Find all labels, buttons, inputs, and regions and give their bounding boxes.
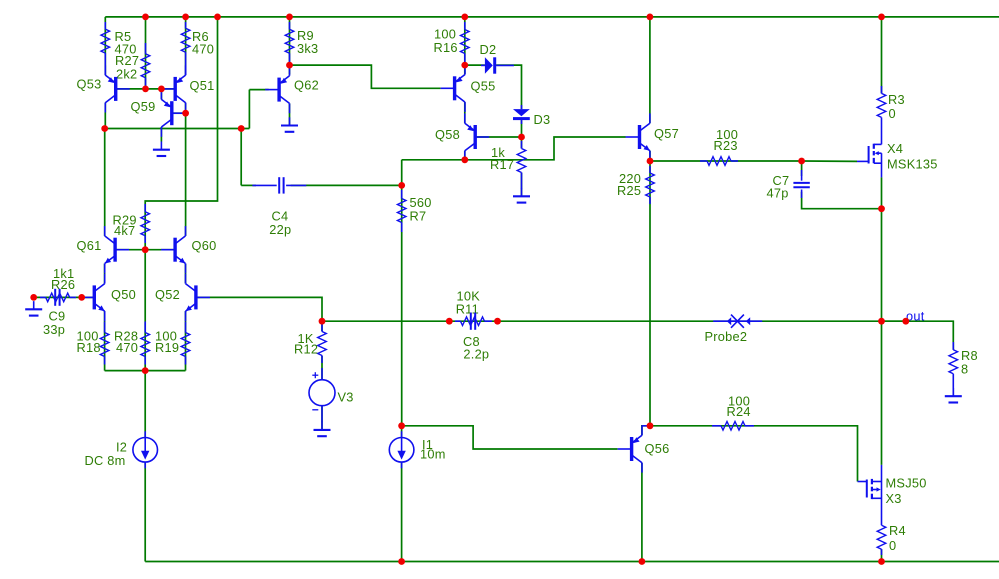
junction [142,14,149,21]
wire [322,320,449,322]
junction [182,110,189,117]
svg-text:Q62: Q62 [294,78,319,93]
svg-text:Probe2: Probe2 [705,329,748,344]
capacitor C7 47p [767,170,810,201]
diode D2 [480,42,514,74]
svg-text:R23: R23 [714,138,738,153]
svg-text:33p: 33p [43,322,65,337]
junction [238,125,245,132]
svg-text:0: 0 [889,106,896,121]
svg-text:0: 0 [889,538,896,553]
resistor R11 10K [455,289,492,326]
diode D3 [513,105,550,127]
ground [945,388,962,403]
junction [286,14,293,21]
wire [321,356,323,380]
junction [878,205,885,212]
junction [158,86,165,93]
current probe Probe2 [705,315,763,344]
junction [798,158,805,165]
wire [496,65,521,109]
svg-text:R3: R3 [888,92,905,107]
wire [291,184,402,186]
transistor Q50 [80,274,136,321]
wire [105,128,250,130]
svg-text:MSJ50: MSJ50 [886,476,927,491]
junction [494,318,501,325]
junction [398,422,405,429]
junction [461,62,468,69]
wire [185,264,187,284]
svg-text:DC 8m: DC 8m [85,453,126,468]
svg-text:R24: R24 [727,404,751,419]
ground [25,301,42,316]
wire [650,426,858,482]
junction [142,367,149,374]
ground [153,142,170,157]
wire [145,17,147,89]
junction [214,14,221,21]
transistor Q53 [77,64,130,113]
junction [30,294,37,301]
wire [801,161,803,176]
transistor Q61 [77,226,130,273]
resistor R27 2k2 [115,43,150,89]
svg-text:Q60: Q60 [192,238,217,253]
wire [402,426,618,449]
junction [182,14,189,21]
wire [104,311,106,371]
svg-text:R4: R4 [889,523,906,538]
transistor Q57 [626,113,679,160]
junction [398,182,405,189]
mosfet X4 MSK135 [857,124,938,177]
transistor Q59 [131,90,186,137]
wire [249,89,268,91]
wire [521,173,523,197]
wire [185,311,187,371]
svg-text:R12: R12 [294,342,318,357]
junction [101,125,108,132]
svg-text:8: 8 [961,362,968,377]
wire [802,160,857,162]
wire [145,561,999,563]
resistor R5 470 [101,22,137,64]
svg-text:470: 470 [192,42,214,57]
wire [321,406,323,430]
resistor R24 100 [712,394,754,431]
junction [286,62,293,69]
wire [115,249,175,251]
svg-text:Q52: Q52 [155,287,180,302]
svg-text:2.2p: 2.2p [463,347,489,362]
wire [642,426,650,435]
resistor R7 560 [397,190,431,232]
resistor R12 1K [294,324,326,363]
junction [647,422,654,429]
wire [464,17,466,75]
svg-text:R19: R19 [155,340,179,355]
junction [142,86,149,93]
junction [639,558,646,565]
wire [104,17,106,75]
resistor R29 4k7 [113,204,150,243]
voltage source V3 [309,368,354,422]
svg-text:D3: D3 [534,112,551,127]
resistor R17 1k [490,141,526,189]
transistor Q60 [161,226,216,273]
svg-text:Q51: Q51 [190,78,215,93]
junction [78,294,85,301]
wire [650,160,802,162]
wire [240,129,242,186]
svg-text:R7: R7 [410,209,427,224]
current source I1 10m [389,431,445,468]
svg-text:R17: R17 [490,157,514,172]
svg-text:3k3: 3k3 [297,41,318,56]
transistor Q51 [161,64,214,113]
svg-text:10m: 10m [420,447,446,462]
wire [401,160,403,426]
resistor R25 220 [617,166,654,204]
wire [449,320,497,322]
wire [145,17,217,250]
svg-text:Q56: Q56 [645,441,670,456]
svg-text:D2: D2 [480,42,497,57]
wire [321,321,323,331]
svg-text:Q55: Q55 [471,79,496,94]
junction [878,318,885,325]
resistor R23 100 [700,127,738,165]
wire [104,264,106,284]
wire [289,17,291,75]
junction [461,14,468,21]
wire [185,103,187,236]
wire [401,462,403,561]
resistor R26 1k1 [40,266,76,302]
wire [521,120,523,148]
junction [647,14,654,21]
wire [881,17,883,94]
wire [498,321,954,350]
svg-text:R18: R18 [77,340,101,355]
capacitor C4 22p [252,177,306,237]
wire [144,371,146,438]
wire [105,370,186,372]
wire [82,296,96,298]
svg-text:Q61: Q61 [77,238,102,253]
wire [104,103,106,129]
svg-text:Q57: Q57 [654,126,679,141]
wire [641,463,643,562]
wire [34,296,82,298]
wire [649,17,651,123]
wire [172,112,186,114]
resistor R8 8 [949,342,978,396]
wire [160,89,162,100]
svg-text:22p: 22p [269,222,291,237]
wire [160,127,162,142]
wire [248,90,250,129]
resistor R9 3k3 [285,22,318,63]
current source I2 DC 8m [85,431,158,468]
transistor Q52 [155,274,210,321]
transistor Q56 [618,425,670,472]
svg-text:2k2: 2k2 [116,67,137,82]
transistor Q62 [265,66,319,113]
ground [513,188,530,203]
svg-text:4k7: 4k7 [114,223,135,238]
transistor Q58 [435,113,489,160]
junction [461,156,468,163]
ground [314,422,331,437]
wire [464,102,466,123]
junction [398,558,405,565]
wire [475,136,521,138]
svg-text:Q53: Q53 [77,77,102,92]
capacitor C9 33p [43,289,65,337]
wire [401,426,403,438]
svg-text:R16: R16 [434,40,458,55]
wire [881,549,883,561]
wire [465,64,485,66]
wire [802,192,882,209]
wire [881,177,883,465]
wire [464,151,466,160]
wire [402,137,626,160]
junction [902,318,909,325]
svg-text:V3: V3 [338,390,354,405]
wire [105,16,999,18]
wire [196,297,323,321]
wire [144,250,146,371]
svg-text:X3: X3 [886,491,902,506]
wire [116,88,176,90]
wire [144,462,146,561]
svg-text:MSK135: MSK135 [887,157,938,172]
ground [281,117,298,132]
svg-text:470: 470 [116,340,138,355]
svg-text:Q58: Q58 [435,127,460,142]
junction [878,14,885,21]
transistor Q55 [441,65,496,112]
net label out [906,309,925,324]
junction [878,558,885,565]
wire [649,151,651,426]
resistor R6 470 [181,22,214,64]
junction [647,158,654,165]
wire [241,184,256,186]
junction [446,318,453,325]
resistor R18 100 [77,322,109,365]
wire [185,17,187,75]
mosfet X3 MSJ50 [858,465,927,525]
svg-text:X4: X4 [887,141,903,156]
junction [319,318,326,325]
svg-text:R25: R25 [617,183,641,198]
wire [882,320,906,322]
wire [104,129,106,236]
resistor R16 100 [434,22,470,63]
svg-text:47p: 47p [767,186,789,201]
capacitor C8 2.2p [463,313,489,362]
resistor R19 100 [155,322,190,365]
svg-text:Q59: Q59 [131,99,156,114]
svg-text:Q50: Q50 [111,287,136,302]
wire [289,103,291,125]
wire [290,65,441,88]
junction [518,134,525,141]
resistor R28 470 [114,322,150,365]
resistor R4 0 [877,523,906,555]
resistor R3 0 [877,86,905,124]
junction [142,246,149,253]
